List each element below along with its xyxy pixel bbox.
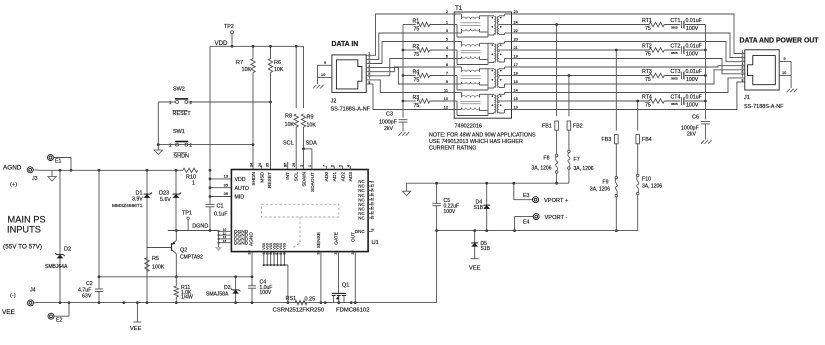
svg-text:MAIN PS: MAIN PS bbox=[8, 215, 46, 225]
svg-text:63V: 63V bbox=[82, 294, 92, 300]
svg-text:34: 34 bbox=[249, 163, 253, 167]
svg-text:R2: R2 bbox=[413, 44, 420, 50]
resistor R7 column bbox=[251, 45, 255, 170]
svg-text:10K: 10K bbox=[285, 122, 295, 128]
svg-text:6: 6 bbox=[446, 54, 448, 59]
wire F10 to lineB bbox=[637, 195, 639, 231]
svg-text:2: 2 bbox=[371, 181, 375, 183]
junction E1/rail bbox=[70, 169, 73, 172]
pin J2 9 bbox=[318, 60, 333, 66]
svg-text:FB2: FB2 bbox=[573, 123, 583, 129]
svg-text:OUT: OUT bbox=[350, 232, 356, 242]
ferrite FB3 bbox=[602, 135, 619, 144]
junction R10 right bbox=[209, 169, 212, 172]
svg-text:VPORT -: VPORT - bbox=[545, 215, 568, 221]
svg-text:FB4: FB4 bbox=[642, 137, 652, 143]
svg-text:75: 75 bbox=[414, 26, 420, 32]
svg-text:NC: NC bbox=[358, 216, 364, 221]
wire lineB to bottom rail bbox=[435, 229, 438, 302]
svg-text:10K: 10K bbox=[307, 123, 317, 129]
svg-text:0.01uF: 0.01uF bbox=[686, 95, 702, 101]
svg-text:RS1: RS1 bbox=[286, 296, 297, 302]
wire SDAOUT jog bbox=[302, 147, 312, 169]
svg-text:RT4: RT4 bbox=[642, 95, 652, 101]
pin AD0-AD3 stubs bbox=[326, 166, 350, 170]
svg-text:3: 3 bbox=[300, 165, 304, 167]
pin 36 bbox=[224, 191, 228, 196]
svg-text:T1: T1 bbox=[455, 5, 463, 12]
svg-text:VDD: VDD bbox=[215, 40, 229, 47]
wire D2 column bbox=[59, 170, 61, 302]
svg-text:31: 31 bbox=[371, 211, 375, 215]
svg-text:J3: J3 bbox=[32, 176, 38, 182]
wires J2 to T1 routing bbox=[373, 14, 446, 110]
svg-text:Q1: Q1 bbox=[342, 283, 349, 289]
junction C2 bottom bbox=[98, 301, 101, 304]
connector J2 jack bbox=[332, 55, 366, 93]
svg-text:14: 14 bbox=[371, 188, 375, 192]
capacitor C6 bbox=[681, 115, 710, 138]
svg-text:RT3: RT3 bbox=[642, 69, 652, 75]
label VDD bbox=[215, 40, 229, 47]
pins NC U1 right bbox=[358, 179, 374, 220]
connector J3 (+) input bbox=[10, 167, 38, 188]
svg-text:3A, 1206: 3A, 1206 bbox=[531, 166, 551, 172]
svg-text:13: 13 bbox=[224, 174, 228, 179]
svg-text:J1: J1 bbox=[744, 95, 750, 101]
label J1 bbox=[744, 95, 784, 110]
svg-text:7: 7 bbox=[446, 71, 448, 76]
wire AUTO pin tap bbox=[209, 186, 232, 189]
wire FB4-F10 bbox=[637, 144, 639, 174]
svg-text:AD2: AD2 bbox=[340, 172, 346, 182]
pin SENSE column bbox=[316, 232, 322, 303]
svg-text:SW1: SW1 bbox=[173, 129, 185, 135]
resistor R3 bbox=[403, 95, 446, 109]
wire C6 column bbox=[704, 25, 706, 120]
svg-text:8: 8 bbox=[741, 78, 743, 82]
transformer T1 box bbox=[454, 5, 511, 118]
switch SW1 SHDN bbox=[169, 129, 193, 160]
wire J4 to bottom rail bbox=[34, 302, 38, 304]
transistor Q2 bbox=[147, 240, 203, 260]
pins T1 section 2 bbox=[446, 37, 519, 59]
ground arrow line A bbox=[402, 183, 410, 196]
svg-text:GATE: GATE bbox=[334, 232, 340, 245]
terminal E3 VPORT+ bbox=[512, 182, 569, 204]
junction C1/DGND bbox=[209, 229, 212, 232]
svg-text:TP2: TP2 bbox=[224, 24, 234, 30]
svg-text:0.25: 0.25 bbox=[305, 297, 316, 303]
power VEE stub bottom bbox=[130, 301, 142, 332]
junction Q1 drain rail bbox=[324, 301, 327, 304]
svg-text:U1: U1 bbox=[372, 240, 379, 246]
svg-text:VEE: VEE bbox=[469, 266, 481, 272]
svg-text:D2: D2 bbox=[64, 247, 71, 253]
svg-text:18: 18 bbox=[514, 71, 518, 76]
svg-text:AGND: AGND bbox=[3, 165, 22, 172]
svg-text:R9: R9 bbox=[307, 115, 314, 121]
svg-text:AD1: AD1 bbox=[332, 172, 338, 182]
ground J2 shield bbox=[313, 65, 324, 88]
svg-text:AUTO: AUTO bbox=[235, 186, 250, 192]
junction E2/rail bbox=[68, 301, 71, 304]
svg-text:100V: 100V bbox=[686, 77, 699, 83]
svg-text:38: 38 bbox=[248, 250, 252, 254]
svg-text:MMSZ4686T1: MMSZ4686T1 bbox=[112, 203, 143, 209]
svg-text:100V: 100V bbox=[686, 26, 699, 32]
svg-text:CT1: CT1 bbox=[671, 18, 681, 24]
node AGND label bbox=[3, 165, 22, 172]
resistor RT4 capacitor CT4 bbox=[519, 95, 705, 109]
wire F7 to lineA bbox=[568, 169, 570, 183]
svg-text:0.01uF: 0.01uF bbox=[686, 18, 702, 24]
ferrite FB1 bbox=[542, 121, 558, 130]
transistor Q1 bbox=[332, 283, 349, 305]
svg-text:RESET: RESET bbox=[267, 172, 273, 188]
label MID pin bbox=[235, 195, 245, 201]
wire bottom rail left bbox=[37, 302, 437, 304]
svg-text:J2: J2 bbox=[331, 99, 337, 105]
svg-text:100K: 100K bbox=[152, 265, 165, 271]
junction C4 bottom rail bbox=[251, 301, 254, 304]
junction F9/lineB bbox=[615, 229, 618, 232]
capacitor C5 bbox=[432, 198, 459, 215]
fuse F7 bbox=[568, 150, 594, 172]
svg-text:(-): (-) bbox=[10, 293, 16, 299]
junction C6/CT4 bbox=[704, 100, 707, 103]
svg-text:SCL: SCL bbox=[294, 172, 300, 182]
label R9 bbox=[307, 115, 317, 129]
wire VDD column bbox=[209, 46, 211, 230]
svg-text:13: 13 bbox=[223, 239, 227, 243]
fuse F10 bbox=[636, 174, 662, 195]
capacitor C2 bbox=[78, 281, 103, 300]
svg-text:CT4: CT4 bbox=[671, 95, 681, 101]
resistor R8 column bbox=[294, 45, 298, 170]
svg-text:33: 33 bbox=[371, 215, 375, 219]
wire SW link vertical bbox=[157, 102, 159, 145]
wire FB3 column bbox=[615, 49, 618, 131]
svg-text:(55V TO 57V): (55V TO 57V) bbox=[3, 243, 42, 250]
svg-text:10K: 10K bbox=[242, 67, 252, 73]
wire FB3-F9 bbox=[615, 144, 617, 177]
svg-text:R5: R5 bbox=[152, 256, 159, 262]
wire E1 to rail bbox=[54, 158, 72, 171]
svg-text:0805: 0805 bbox=[671, 76, 678, 80]
label DGND pins bbox=[234, 229, 249, 246]
op-amp U1 body (PSE controller) bbox=[231, 170, 378, 252]
junction D23 top bbox=[175, 169, 178, 172]
svg-text:9: 9 bbox=[324, 60, 326, 65]
junction AGND dist/pin38 bbox=[251, 275, 254, 278]
pin INT stub bbox=[284, 162, 288, 170]
junction D2 bottom bbox=[59, 301, 62, 304]
svg-text:SHDN: SHDN bbox=[174, 154, 190, 160]
transformer T1 section 3 bbox=[454, 67, 511, 90]
svg-text:USE 749012013 WHICH HAS HIGHER: USE 749012013 WHICH HAS HIGHER bbox=[429, 139, 523, 145]
svg-text:RESET: RESET bbox=[173, 111, 192, 117]
wire F8 to lineA bbox=[556, 173, 558, 183]
pin J2 10 bbox=[318, 72, 333, 78]
svg-text:75: 75 bbox=[414, 103, 420, 109]
svg-text:DNC: DNC bbox=[355, 229, 365, 234]
svg-text:F10: F10 bbox=[642, 177, 651, 183]
ground AGND arrow below rail bbox=[48, 170, 56, 181]
connector J1 jack bbox=[745, 50, 779, 90]
svg-text:R7: R7 bbox=[236, 60, 243, 66]
svg-text:30: 30 bbox=[317, 250, 321, 254]
svg-text:25: 25 bbox=[371, 206, 375, 210]
diode D5 bbox=[471, 229, 490, 259]
svg-text:9: 9 bbox=[784, 56, 786, 61]
svg-text:1: 1 bbox=[308, 165, 312, 167]
pin OUT column bbox=[350, 232, 356, 303]
junction SENSE rail bbox=[320, 301, 323, 304]
svg-text:E4: E4 bbox=[523, 220, 530, 226]
svg-text:F8: F8 bbox=[543, 156, 549, 162]
svg-text:F7: F7 bbox=[574, 157, 580, 163]
svg-text:17: 17 bbox=[514, 62, 518, 67]
svg-text:DATA AND POWER OUT: DATA AND POWER OUT bbox=[740, 38, 820, 45]
svg-text:E2: E2 bbox=[56, 318, 63, 324]
label DGND net bbox=[192, 224, 208, 230]
diode D23 zener bbox=[159, 191, 181, 204]
junction F8/lineA bbox=[555, 182, 558, 185]
resistor R1 bbox=[403, 18, 446, 32]
pins DGND bus and ground bbox=[215, 228, 232, 252]
ground below SW1 bbox=[154, 145, 162, 155]
svg-text:36: 36 bbox=[224, 191, 228, 196]
pin numbers U1 top bbox=[249, 163, 350, 167]
svg-text:SDAIN: SDAIN bbox=[302, 171, 308, 186]
svg-text:MID: MID bbox=[235, 195, 245, 201]
junction C3/R2 bbox=[402, 49, 405, 52]
diode D3 TVS bbox=[206, 285, 240, 298]
svg-text:INPUTS: INPUTS bbox=[7, 225, 41, 235]
wire VDD top row bbox=[210, 45, 304, 47]
svg-text:VSS: VSS bbox=[283, 242, 287, 249]
junction D3 top bbox=[234, 275, 237, 278]
fuse F9 bbox=[590, 176, 618, 197]
label R8 bbox=[285, 114, 295, 129]
svg-text:S1B: S1B bbox=[481, 246, 491, 252]
svg-text:CT3: CT3 bbox=[671, 69, 681, 75]
svg-text:31: 31 bbox=[334, 250, 338, 254]
wire SW2 left bbox=[158, 101, 175, 103]
wire FB2-F7 bbox=[568, 130, 570, 150]
svg-text:RT2: RT2 bbox=[642, 44, 652, 50]
transformer T1 section 4 bbox=[454, 93, 511, 116]
wire AGND dist line bbox=[99, 276, 252, 278]
svg-text:75: 75 bbox=[645, 26, 651, 32]
junction OUT rail bbox=[354, 301, 357, 304]
svg-text:VPORT +: VPORT + bbox=[544, 198, 569, 204]
svg-text:R3: R3 bbox=[413, 95, 420, 101]
pin GATE column bbox=[334, 232, 340, 293]
resistor R4 bbox=[403, 69, 446, 83]
ground below C6 bbox=[701, 124, 712, 144]
transformer T1 section 1 bbox=[454, 14, 511, 37]
svg-text:(+): (+) bbox=[10, 182, 17, 188]
power VEE below D5 bbox=[469, 259, 481, 272]
svg-text:3A, 1206: 3A, 1206 bbox=[642, 184, 662, 190]
pin AGND 38 column bbox=[248, 250, 253, 302]
svg-text:75: 75 bbox=[645, 52, 651, 58]
pins T1 section 1 bbox=[446, 9, 519, 33]
svg-text:INT: INT bbox=[285, 172, 291, 180]
svg-text:SMAJ58A: SMAJ58A bbox=[206, 292, 229, 298]
svg-text:R4: R4 bbox=[413, 69, 420, 75]
wire FB2 column bbox=[568, 74, 571, 116]
svg-text:D3: D3 bbox=[224, 285, 231, 291]
svg-text:1/4W: 1/4W bbox=[181, 295, 193, 301]
svg-text:75: 75 bbox=[414, 77, 420, 83]
svg-text:SDAOUT: SDAOUT bbox=[310, 172, 316, 192]
svg-text:VDD: VDD bbox=[235, 177, 246, 183]
svg-text:RT1: RT1 bbox=[642, 18, 652, 24]
wire + rail bbox=[42, 169, 183, 171]
label 749022016 bbox=[455, 124, 482, 130]
svg-text:8: 8 bbox=[368, 80, 370, 84]
svg-text:Q2: Q2 bbox=[180, 248, 187, 254]
pin DNC U1 right bbox=[355, 229, 375, 235]
svg-text:CSRN2512FKR250: CSRN2512FKR250 bbox=[273, 308, 325, 314]
svg-text:MSD: MSD bbox=[259, 171, 265, 182]
svg-text:100V: 100V bbox=[444, 209, 456, 215]
svg-text:AD0: AD0 bbox=[324, 172, 330, 182]
svg-text:100V: 100V bbox=[686, 103, 699, 109]
wire F9 to lineB bbox=[615, 197, 617, 231]
ferrite FB4 bbox=[636, 135, 652, 144]
svg-text:11: 11 bbox=[444, 88, 448, 93]
label AUTO pin bbox=[235, 186, 250, 192]
resistor RT2 capacitor CT2 bbox=[519, 44, 705, 58]
label SCL bbox=[283, 141, 294, 147]
resistor R11 bbox=[174, 277, 193, 303]
wire D23-Q2 column bbox=[175, 170, 177, 230]
diode D4 bbox=[474, 182, 491, 232]
svg-text:FB3: FB3 bbox=[602, 137, 612, 143]
junction DGND line end bbox=[209, 229, 211, 231]
label R6 bbox=[274, 60, 284, 73]
svg-text:SS-7188S-A-NF: SS-7188S-A-NF bbox=[331, 107, 371, 113]
svg-text:75: 75 bbox=[645, 77, 651, 83]
svg-text:1000pF: 1000pF bbox=[379, 120, 397, 126]
svg-text:3A, 1206: 3A, 1206 bbox=[590, 187, 610, 193]
svg-text:SCL: SCL bbox=[283, 141, 294, 147]
label CSRN2512FKR250 bbox=[273, 308, 325, 314]
terminal E2 bbox=[48, 313, 63, 323]
svg-text:3A, 1206: 3A, 1206 bbox=[574, 166, 594, 172]
svg-text:DATA IN: DATA IN bbox=[332, 41, 359, 48]
wire FB1-F8 bbox=[556, 130, 558, 154]
svg-text:SHDN: SHDN bbox=[251, 171, 257, 185]
svg-text:0.1uF: 0.1uF bbox=[214, 212, 227, 218]
pin MSD stub bbox=[261, 166, 263, 170]
pins U1 bottom group with bus bbox=[262, 242, 289, 304]
svg-text:23: 23 bbox=[371, 202, 375, 206]
svg-text:16: 16 bbox=[514, 79, 518, 84]
wire C2 column bbox=[98, 170, 100, 302]
transformer T1 section 2 bbox=[454, 42, 511, 65]
svg-text:SMBJ64A: SMBJ64A bbox=[45, 264, 68, 270]
ground J1 shield bbox=[787, 61, 798, 92]
svg-text:0805: 0805 bbox=[671, 25, 678, 29]
svg-text:10K: 10K bbox=[274, 67, 284, 73]
pin J1 10 bbox=[779, 70, 791, 75]
ferrite FB2 bbox=[567, 121, 583, 130]
dashed internal block U1 bbox=[262, 204, 339, 247]
svg-text:FB1: FB1 bbox=[542, 123, 552, 129]
wire MID pin tap bbox=[209, 195, 232, 198]
svg-text:21: 21 bbox=[514, 45, 518, 50]
svg-text:SS-7188S-A-NF: SS-7188S-A-NF bbox=[744, 104, 784, 110]
svg-text:SW2: SW2 bbox=[173, 87, 185, 93]
junction C3/R4 bbox=[402, 74, 405, 77]
svg-text:R1: R1 bbox=[413, 18, 420, 24]
svg-text:C6: C6 bbox=[692, 115, 699, 121]
junction D2 top bbox=[59, 169, 62, 172]
svg-text:CURRENT RATING: CURRENT RATING bbox=[429, 146, 476, 152]
junction AGND line left bbox=[98, 275, 101, 278]
svg-text:TP1: TP1 bbox=[182, 211, 192, 217]
svg-text:21: 21 bbox=[371, 197, 375, 201]
svg-text:DGND: DGND bbox=[234, 240, 249, 246]
pin 13 bbox=[224, 174, 228, 179]
svg-text:VEE: VEE bbox=[130, 326, 142, 332]
svg-text:5.6V: 5.6V bbox=[160, 197, 171, 203]
resistor RT1 capacitor CT1 bbox=[519, 18, 705, 32]
wire SW1 right bbox=[157, 143, 255, 146]
svg-text:3: 3 bbox=[446, 28, 448, 33]
wire line A VPORT+ bbox=[407, 182, 569, 184]
svg-text:35: 35 bbox=[266, 163, 270, 167]
svg-text:2kV: 2kV bbox=[687, 132, 697, 138]
svg-text:100V: 100V bbox=[260, 290, 272, 296]
junction Q1 source rail bbox=[350, 301, 353, 304]
svg-text:22: 22 bbox=[514, 28, 518, 33]
svg-text:AGND: AGND bbox=[249, 232, 255, 246]
svg-text:E3: E3 bbox=[523, 193, 530, 199]
terminal E1 bbox=[48, 155, 62, 165]
testpoint TP1 bbox=[182, 211, 192, 231]
svg-text:NOTE: FOR 48W AND 90W APPLICAT: NOTE: FOR 48W AND 90W APPLICATIONS bbox=[429, 133, 536, 139]
junction C2 top bbox=[98, 169, 101, 172]
label NOTE bbox=[429, 133, 536, 152]
wire C5 column bbox=[436, 183, 438, 230]
capacitor C1 bbox=[206, 204, 228, 218]
svg-text:20: 20 bbox=[371, 193, 375, 197]
wire Q2 emitter up bbox=[175, 231, 177, 241]
svg-text:D23: D23 bbox=[159, 191, 169, 197]
junction C6/CT2 bbox=[704, 49, 707, 52]
svg-text:CMPTA92: CMPTA92 bbox=[180, 255, 203, 261]
svg-text:1: 1 bbox=[192, 181, 195, 187]
svg-text:12: 12 bbox=[444, 105, 448, 110]
diode D2 bbox=[45, 247, 71, 271]
wire SW2 right bbox=[188, 101, 272, 104]
svg-text:26: 26 bbox=[292, 163, 296, 167]
ground below C3 bbox=[399, 122, 410, 136]
wire D1-R5 column bbox=[146, 170, 148, 302]
fuse F8 bbox=[531, 154, 557, 173]
resistor R6 column bbox=[268, 45, 272, 170]
diode D1 zener bbox=[112, 191, 152, 210]
wire Q2 collector down bbox=[175, 254, 177, 277]
svg-text:8: 8 bbox=[446, 62, 448, 67]
svg-text:CT2: CT2 bbox=[671, 44, 681, 50]
